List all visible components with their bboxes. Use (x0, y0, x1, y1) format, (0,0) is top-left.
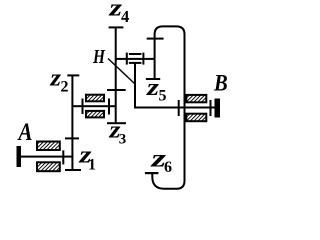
gear z4 top tick (109, 26, 124, 28)
bearing on shaft A lower block (37, 162, 60, 171)
svg-text:3: 3 (119, 132, 127, 148)
mesh symbol upper bar (129, 53, 142, 55)
gear z5 line (154, 34, 156, 80)
middle bearing left tick (82, 99, 84, 115)
shaft B wire (134, 107, 216, 109)
carrier arm wire (116, 58, 155, 60)
carrier descender wire (134, 63, 136, 109)
gear z3 top tick (107, 89, 126, 91)
svg-text:5: 5 (159, 88, 167, 105)
carrier H leader line (108, 59, 135, 84)
gear z2 top tick (67, 74, 79, 76)
gear z2 bottom / z1 top tick (65, 137, 79, 139)
mesh symbol lower bar (129, 62, 142, 64)
shaft A input end bar (17, 146, 22, 167)
gear z5 top tick (147, 38, 164, 40)
mesh symbol right tick (142, 53, 144, 65)
bearing on shaft B upper block (186, 95, 206, 102)
middle bearing right tick (108, 99, 110, 115)
svg-text:2: 2 (61, 78, 69, 95)
svg-text:6: 6 (164, 159, 172, 176)
gear z1 bottom tick (65, 169, 81, 171)
ring gear z6 housing outline (152, 26, 184, 188)
bearing B right tick (210, 100, 212, 116)
bearing on shaft B lower block (186, 114, 206, 122)
central gear shaft z3/z4 line (115, 27, 117, 124)
bearing A right tick (62, 150, 64, 164)
svg-text:A: A (17, 117, 33, 146)
gear z5 bottom tick (146, 78, 160, 80)
gear z6 tick (145, 172, 159, 174)
svg-text:4: 4 (121, 7, 129, 26)
svg-text:1: 1 (88, 157, 96, 174)
middle bearing lower block (86, 111, 104, 118)
intermediate shaft z2-z3 wire (72, 105, 115, 107)
shaft A wire (19, 156, 73, 158)
svg-text:H: H (92, 46, 106, 68)
shaft B output end bar (215, 99, 221, 118)
bearing on shaft A upper block (37, 142, 60, 151)
svg-text:B: B (213, 70, 228, 95)
mesh symbol left tick (126, 53, 128, 65)
bearing B left tick (178, 100, 180, 116)
middle bearing upper block (86, 95, 104, 102)
gear z3 bottom tick (107, 122, 126, 124)
gear z1/z2 shaft line (71, 75, 73, 172)
